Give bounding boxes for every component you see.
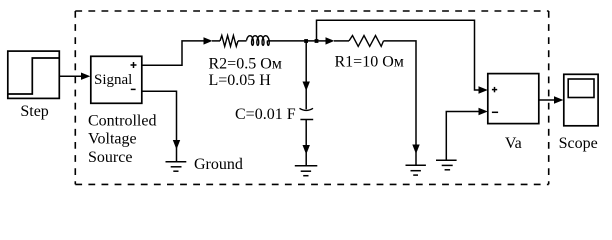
svg-text:R2=0.5 Ом: R2=0.5 Ом [209,55,282,72]
svg-text:Step: Step [20,103,48,120]
svg-text:Controlled: Controlled [88,113,156,130]
svg-text:R1=10 Ом: R1=10 Ом [335,53,404,70]
svg-text:Signal: Signal [94,72,132,88]
svg-text:Scope: Scope [559,135,598,152]
svg-text:C=0.01 F: C=0.01 F [235,106,296,123]
svg-text:Va: Va [505,135,522,152]
svg-text:L=0.05 H: L=0.05 H [209,72,272,89]
svg-text:Voltage: Voltage [88,131,137,148]
svg-text:Source: Source [88,149,132,166]
svg-text:Ground: Ground [194,156,243,173]
